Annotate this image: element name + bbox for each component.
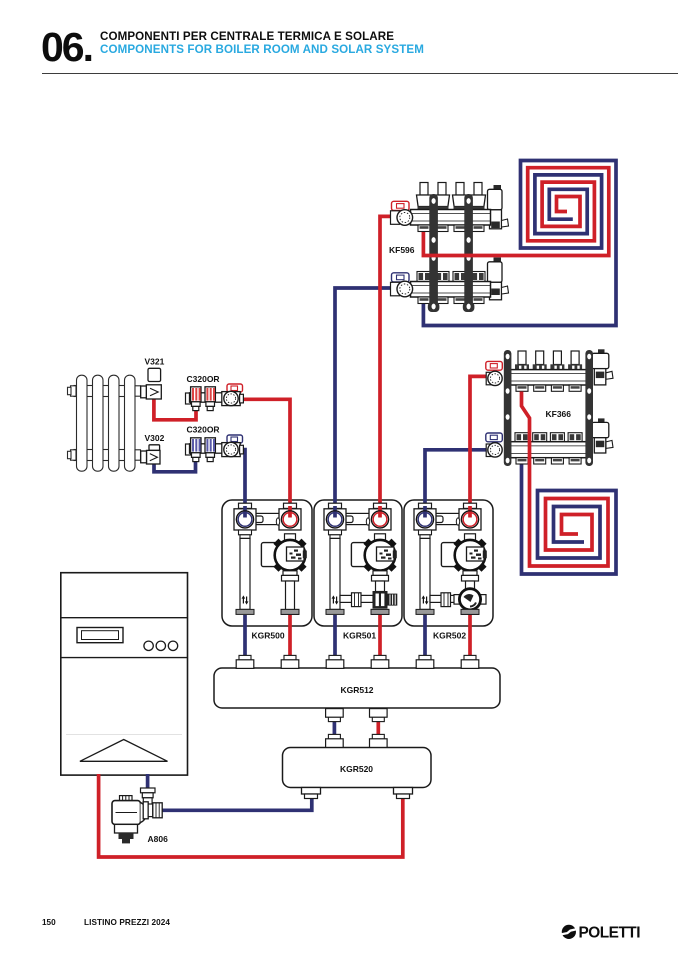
boiler flame triangle xyxy=(80,740,168,762)
wire blue KGR501 to KF596 lower manifold xyxy=(335,288,397,512)
pump group KGR501 pipe + thermostatic mixing valve xyxy=(376,581,385,592)
mounting bracket KF366 right xyxy=(585,350,593,466)
actuator 2 xyxy=(435,183,450,211)
pump group KGR500 internals xyxy=(234,503,307,614)
manifold body upper xyxy=(411,210,491,226)
svg-text:V302: V302 xyxy=(145,433,165,443)
svg-text:C320OR: C320OR xyxy=(187,424,220,434)
pump group KGR502 pipe + 3-way rotary valve xyxy=(466,581,475,589)
wire blue KGR512 to KGR520 xyxy=(333,710,337,746)
KGR520 outlet stub right xyxy=(394,788,413,795)
boiler display xyxy=(77,628,123,643)
boiler panel lines xyxy=(61,618,188,658)
svg-text:KGR500: KGR500 xyxy=(252,630,285,640)
wire red riser KGR502 to KGR512 xyxy=(468,615,472,669)
wire blue riser KGR501 to KGR512 xyxy=(333,615,337,669)
manifold outlets lower xyxy=(418,297,484,304)
air vent lower xyxy=(488,258,509,300)
union nuts under KGR512 xyxy=(326,709,344,722)
wire red riser KGR501 to KGR512 xyxy=(378,615,382,669)
pump group KGR500 return pipe xyxy=(286,581,295,610)
svg-text:A806: A806 xyxy=(148,834,169,844)
wire blue KGR502 to KF366 lower manifold xyxy=(425,450,489,512)
air vent upper xyxy=(488,185,509,229)
svg-text:KGR502: KGR502 xyxy=(433,630,466,640)
mounting bracket KF596 right xyxy=(463,194,475,312)
wire red KGR502 to KF366 upper manifold xyxy=(470,376,489,512)
union nuts on KGR520 xyxy=(326,734,344,747)
header title english xyxy=(100,43,424,56)
boiler buttons xyxy=(144,641,178,650)
manifold KF366 lower outlets xyxy=(516,458,581,464)
fitting C320OR upper xyxy=(186,384,244,411)
valve V321 xyxy=(141,368,162,399)
footer POLETTI logo xyxy=(560,923,645,941)
manifold body lower xyxy=(411,282,491,298)
footer page number xyxy=(42,918,56,927)
svg-text:C320OR: C320OR xyxy=(187,374,220,384)
wire blue boiler to A806 xyxy=(146,774,150,791)
actuator 4 xyxy=(471,183,486,211)
header chapter number xyxy=(41,27,92,68)
wire blue riser KGR502 to KGR512 xyxy=(423,615,427,669)
manifold KF366 upper xyxy=(486,349,613,391)
wire red KGR512 to KGR520 xyxy=(376,710,380,746)
mounting bracket KF366 left xyxy=(504,350,512,466)
gauge valve KF366 lower xyxy=(486,433,503,457)
manifold KF366 lower xyxy=(486,418,613,464)
pump group KGR501 internals xyxy=(324,503,397,614)
wire blue KF366 lower manifold to coil 2 xyxy=(522,465,617,575)
wire blue C320OR lower to KGR500 xyxy=(238,450,245,512)
wire blue riser KGR500 to KGR512 xyxy=(243,615,247,669)
gauge valve lower xyxy=(391,273,413,297)
svg-text:V321: V321 xyxy=(145,357,165,367)
header rule xyxy=(42,73,678,75)
svg-text:KGR512: KGR512 xyxy=(340,685,373,695)
manifold bar KGR512 xyxy=(214,668,500,708)
boiler body xyxy=(61,573,188,775)
svg-text:KF366: KF366 xyxy=(546,409,572,419)
wire red KF366 upper manifold to coil 2 xyxy=(522,392,609,567)
actuator 1 xyxy=(417,183,432,211)
mounting bracket KF596 left xyxy=(428,194,440,312)
gauge valve KF366 upper xyxy=(486,361,503,385)
wire red KGR500 to C320OR upper xyxy=(238,399,290,512)
union nuts pump groups to KGR512 xyxy=(236,655,254,668)
manifold KF596 upper xyxy=(391,183,509,232)
wire red KF596 upper manifold to coil 1 xyxy=(423,168,608,256)
manifold body KF366 lower xyxy=(511,442,588,458)
svg-text:KGR520: KGR520 xyxy=(340,764,373,774)
manifold KF366 upper outlets xyxy=(516,385,581,391)
lockshield caps xyxy=(417,272,485,282)
wire red KGR501 to KF596 upper manifold xyxy=(380,216,397,512)
fitting C320OR lower xyxy=(186,435,244,462)
manifold KF596 lower xyxy=(391,258,509,304)
wire red riser KGR500 to KGR512 xyxy=(288,615,292,669)
zone valve A806 xyxy=(112,788,162,843)
pump group KGR502 internals xyxy=(414,503,487,614)
wire blue A806 to KGR520 xyxy=(162,795,312,810)
gauge valve upper xyxy=(391,201,413,225)
pump group box KGR502 xyxy=(404,500,493,626)
header title italian xyxy=(100,30,394,43)
svg-text:KF596: KF596 xyxy=(389,245,415,255)
wire red boiler to KGR520 xyxy=(99,774,403,857)
pump group box KGR501 xyxy=(314,500,402,626)
radiator xyxy=(68,375,141,471)
air vent KF366 upper xyxy=(592,349,613,385)
manifold outlets upper xyxy=(418,225,484,232)
wire red V321 to C320OR upper xyxy=(154,396,196,420)
KGR520 outlet stub left xyxy=(302,788,321,795)
manifold bar KGR520 xyxy=(283,748,432,788)
air vent KF366 lower xyxy=(592,418,613,453)
valve V302 xyxy=(141,445,160,464)
boiler faint line xyxy=(66,734,182,736)
manifold body KF366 upper xyxy=(511,370,588,385)
actuator 3 xyxy=(453,183,468,211)
svg-text:KGR501: KGR501 xyxy=(343,630,376,640)
footer doc title xyxy=(84,918,170,927)
pump group box KGR500 xyxy=(222,500,312,626)
wire blue V302 to C320OR lower xyxy=(154,460,196,472)
wire blue KF596 lower manifold to coil 1 xyxy=(423,161,616,326)
